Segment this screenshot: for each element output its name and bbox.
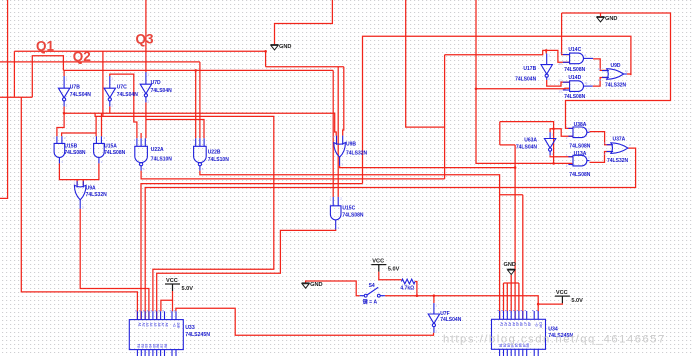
svg-text:U7D: U7D (151, 80, 161, 86)
junction U7F input node (433, 294, 436, 297)
wire GND4 fan drop 1 (503, 283, 505, 311)
svg-text:A2: A2 (141, 323, 145, 327)
svg-text:74LS08N: 74LS08N (569, 144, 591, 150)
wire node-Q1 feed line y70 (63, 69, 333, 71)
wire loop 405-444 vertical (406, 0, 445, 127)
wire U13A out to U37A in2 (590, 152, 611, 163)
svg-text:A5: A5 (515, 322, 519, 326)
wire Y2 line to U33 pin5 (95, 113, 274, 311)
wire U15C out to U33 pin6 (157, 230, 336, 320)
AND gate U15B (53, 136, 86, 164)
GND2 stem (600, 13, 602, 17)
inverter U7D (140, 72, 172, 103)
svg-text:74LS08N: 74LS08N (564, 67, 586, 73)
AND gate U14D (558, 75, 592, 100)
wire U33 VCC feed pin9 (172, 300, 174, 311)
wire riser 553.6 (553, 129, 555, 164)
wire U34 pin5 drop (514, 145, 516, 319)
ground GND4 (504, 262, 516, 274)
wire U9B out to U34 pin drop (340, 166, 515, 168)
OR gate U37A (604, 137, 631, 165)
svg-text:U14D: U14D (568, 75, 581, 81)
IC chip U34 74LS245N (492, 310, 574, 356)
svg-text:74LS08N: 74LS08N (64, 150, 86, 156)
svg-text:U7C: U7C (117, 84, 127, 90)
power VCC1 VCC 5.0V (165, 278, 193, 292)
junction U17B in T (545, 49, 548, 52)
wire U7C out drop (109, 106, 111, 113)
wire U13A in2 jog (572, 163, 573, 164)
svg-text:B8: B8 (164, 343, 168, 347)
svg-text:A8: A8 (165, 323, 169, 327)
svg-text:74LS32N: 74LS32N (346, 151, 368, 157)
wire U15A in2 riser (101, 113, 103, 136)
svg-text:5.0V: 5.0V (571, 298, 583, 304)
wire U14D in2 long feed (476, 87, 570, 90)
svg-text:74LS10N: 74LS10N (151, 156, 173, 162)
svg-text:键 = A: 键 = A (362, 298, 378, 305)
svg-text:U14C: U14C (568, 47, 581, 53)
svg-text:A3: A3 (507, 322, 511, 326)
wire U22B in2 drop (199, 62, 201, 138)
svg-text:74LS32N: 74LS32N (86, 192, 108, 198)
wire U9B in2 riser (343, 67, 344, 136)
svg-text:~G: ~G (172, 323, 176, 328)
AND gate U38A (566, 122, 591, 150)
svg-text:GND: GND (504, 262, 516, 268)
OR gate U9B (333, 135, 368, 166)
wire GND4 fan stem (510, 275, 512, 283)
wire U15A in1 riser (95, 116, 97, 136)
svg-text:74LS10N: 74LS10N (208, 157, 230, 163)
wire U9A in2 drop (82, 180, 84, 186)
wire U7B out to Y1 bus (64, 106, 336, 135)
ground GND1 (271, 44, 292, 50)
AND gate U15A (93, 136, 126, 164)
NAND gate U22B (192, 138, 229, 171)
svg-text:74LS245N: 74LS245N (185, 332, 210, 338)
svg-text:A6: A6 (519, 322, 523, 326)
wire net y51 left line (14, 50, 265, 52)
wire VCC2 to resistor (379, 272, 402, 280)
wire resistor to switch line (415, 282, 417, 296)
resistor 4.7kΩ (400, 279, 415, 291)
inverter U17B (541, 54, 552, 81)
svg-text:11: 11 (625, 69, 628, 73)
wire switch S4 to U34 pin10 (385, 296, 538, 312)
wire GND1 stem wire (275, 0, 333, 44)
svg-text:DIR: DIR (176, 323, 180, 329)
svg-text:A5: A5 (153, 323, 157, 327)
wire y54.7 feed to U14C in2 (445, 50, 570, 62)
wire Y3 line to U22B in3 (146, 120, 204, 139)
wire U9A out to U33 pin4 (80, 209, 149, 320)
wire GND4 fan drop 4 (518, 283, 520, 311)
svg-text:74LS04N: 74LS04N (151, 88, 173, 94)
wire U7B input stub (63, 70, 65, 76)
wire vline 444.6 (444, 55, 446, 179)
svg-text:5.0V: 5.0V (182, 286, 194, 292)
inverter U7C (104, 76, 138, 107)
junction vline476-88 (475, 88, 478, 91)
svg-text:A1: A1 (500, 322, 504, 326)
svg-text:U38A: U38A (574, 122, 587, 128)
inverter U7B (58, 76, 91, 107)
wire vline 476 top to y163 (476, 0, 572, 163)
wire U7D out to U22A in3 (145, 102, 147, 138)
switch S4 (360, 283, 385, 305)
svg-text:74LS08N: 74LS08N (564, 94, 586, 100)
wire U33 pin10 to U7F out (176, 308, 434, 335)
wire U15C in2 riser (337, 67, 339, 197)
svg-text:U15A: U15A (104, 144, 117, 150)
wire L3 bus to U33 pin2 (141, 184, 363, 320)
wire GND4 fan drop 3 (510, 283, 512, 311)
wire U7C in to U22A in1 (110, 74, 137, 138)
svg-text:VCC: VCC (556, 290, 568, 296)
svg-text:A6: A6 (157, 323, 161, 327)
svg-text:A8: A8 (527, 322, 531, 326)
wire U7B out branch to U15B in1 (57, 113, 64, 136)
wire U9A in1 drop (76, 180, 78, 186)
wire net-left-h97 (0, 96, 32, 98)
svg-text:12: 12 (598, 67, 602, 71)
svg-text:Q2: Q2 (73, 49, 91, 64)
svg-text:74LS04N: 74LS04N (117, 92, 139, 98)
svg-text:U15C: U15C (342, 206, 355, 212)
OR gate U9A (73, 181, 107, 210)
wire L1 bus U22B out to U34 pin1 (200, 171, 500, 320)
wire U15B U15A outs to U9A (59, 163, 99, 179)
svg-text:13: 13 (558, 90, 562, 94)
wire U22B in1 drop (195, 70, 197, 138)
IC chip U33 74LS245N (129, 310, 210, 356)
wire GND3 to switch S4 (306, 281, 360, 296)
wire vline 499.8 upper (499, 122, 501, 145)
ground GND3 (302, 282, 323, 288)
wire U63A input link (550, 129, 554, 133)
svg-text:U22B: U22B (208, 150, 221, 156)
wire vline 561.6 to U14C in1 (562, 13, 570, 55)
svg-text:https://blog.csdn.net/qq_46146: https://blog.csdn.net/qq_46146657 (443, 333, 666, 345)
junction U7B out T (63, 112, 66, 115)
junction U63A node (552, 128, 555, 131)
OR gate U9D (598, 63, 628, 89)
wire H1 left line y62 (0, 61, 200, 63)
wire L3 riser loop to U9D out (363, 36, 631, 183)
junction U34 vcc node (537, 303, 540, 306)
wire U17B input T (545, 50, 547, 53)
wire U15B in2 link (62, 133, 97, 136)
NAND gate U22A (134, 138, 173, 171)
wire far-left vertical to U33 pin1 (21, 97, 137, 319)
wire U14C out to U9D in1 (593, 59, 607, 71)
svg-text:13: 13 (598, 78, 602, 82)
svg-text:DIR: DIR (538, 322, 542, 328)
svg-text:11: 11 (585, 81, 588, 85)
wire U38A in1 feed loop (562, 13, 671, 128)
svg-text:U15B: U15B (64, 144, 77, 150)
svg-text:U9B: U9B (346, 141, 356, 147)
AND gate U14C (558, 47, 593, 73)
junction switch-resistor node (416, 294, 419, 297)
svg-text:U37A: U37A (613, 137, 626, 143)
svg-text:74LS04N: 74LS04N (516, 144, 538, 150)
svg-text:U33: U33 (185, 325, 195, 331)
power VCC2 VCC 5.0V (371, 259, 399, 273)
wire Q3 vertical (102, 51, 104, 116)
wire U17B out to U14D in1 (547, 80, 570, 86)
svg-text:74LS04N: 74LS04N (515, 76, 537, 82)
wire U15C in1 riser (332, 70, 334, 196)
junction U22B in1 T (194, 69, 197, 72)
svg-text:VCC: VCC (166, 278, 178, 284)
wire U34 pin8 drop (522, 195, 524, 319)
wire net Q3 vertical from top (145, 0, 147, 72)
wire hline y66.7 (266, 66, 344, 68)
wire L2 bus U22A out to vline (141, 171, 445, 179)
power VCC3 VCC 5.0V (555, 290, 583, 304)
svg-text:74LS08N: 74LS08N (104, 150, 126, 156)
svg-text:74LS04N: 74LS04N (70, 92, 92, 98)
svg-text:A7: A7 (161, 323, 165, 327)
svg-text:U17B: U17B (523, 66, 536, 72)
junction y51-GND1 (264, 50, 267, 53)
svg-text:U34: U34 (548, 327, 558, 333)
wire U7F input drop (433, 296, 435, 303)
wire hline y144.9 (500, 144, 515, 146)
svg-text:A4: A4 (511, 322, 515, 326)
svg-text:GND: GND (279, 44, 291, 50)
svg-text:A4: A4 (149, 323, 153, 327)
svg-text:74LS08N: 74LS08N (342, 213, 364, 219)
svg-text:U22A: U22A (151, 147, 164, 153)
wire U14D out to U9D in2 (593, 78, 607, 87)
svg-text:12: 12 (558, 79, 562, 83)
wire GND4 fan drop 2 (506, 283, 508, 311)
wire U38A in2 link (554, 129, 573, 136)
inverter U63A (544, 132, 555, 156)
wire L4 bus U37A out to U33 pin3 (145, 148, 635, 320)
svg-text:~G: ~G (534, 322, 538, 327)
wire U33 VCC feed (161, 291, 173, 311)
wire U22A in2 stub (140, 133, 142, 138)
svg-text:5.0V: 5.0V (388, 267, 400, 273)
svg-text:GND: GND (310, 282, 322, 288)
ground GND2 (597, 16, 618, 22)
wire U9D out stub (627, 74, 631, 75)
svg-text:U9A: U9A (86, 185, 96, 191)
junction U34 pin5 T (514, 166, 517, 169)
wire GND4 fan bar (504, 282, 519, 284)
wire net-left-vertical-B (13, 51, 15, 97)
svg-text:U9D: U9D (611, 63, 621, 69)
svg-text:74LS32N: 74LS32N (605, 83, 627, 89)
svg-text:74LS32N: 74LS32N (607, 158, 629, 164)
wire U34 VCC link (538, 303, 562, 304)
wire U34 pin top link y194.8 (500, 194, 523, 196)
AND gate U13A (566, 151, 591, 178)
svg-text:U63A: U63A (524, 137, 537, 143)
svg-text:Q3: Q3 (136, 31, 155, 46)
wire U63A out to U13A in1 (550, 155, 573, 157)
svg-text:S4: S4 (369, 283, 375, 289)
svg-text:10: 10 (558, 62, 562, 66)
svg-text:Q1: Q1 (36, 39, 55, 54)
svg-text:U7B: U7B (70, 84, 80, 90)
svg-text:VCC: VCC (372, 259, 384, 265)
wire U38A out to U37A in1 (590, 132, 611, 145)
svg-text:A1: A1 (138, 323, 142, 327)
wire GND1 drop (265, 51, 267, 66)
svg-text:74LS08N: 74LS08N (569, 172, 591, 178)
wire Q1 box step (32, 56, 63, 98)
svg-text:A3: A3 (145, 323, 149, 327)
svg-text:A7: A7 (523, 322, 527, 326)
svg-text:4.7kΩ: 4.7kΩ (400, 286, 414, 292)
svg-text:GND: GND (605, 16, 617, 22)
svg-text:U13A: U13A (574, 151, 587, 157)
wire net-left-vertical-A (0, 0, 8, 198)
svg-text:74LS04N: 74LS04N (440, 317, 462, 323)
wire hline y121.6 to U63A junction (500, 122, 554, 129)
inverter U7F (428, 303, 462, 334)
junction riser551 T (552, 162, 555, 165)
AND gate U15C (329, 196, 363, 230)
